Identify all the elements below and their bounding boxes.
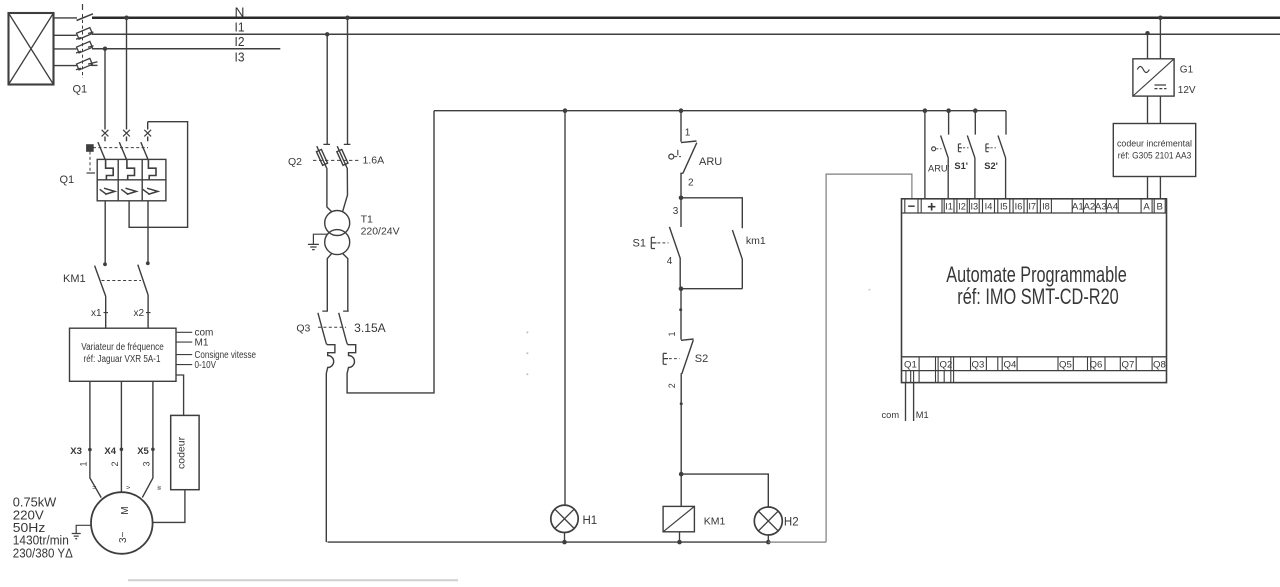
svg-text:Q2: Q2	[288, 156, 302, 168]
svg-text:I1: I1	[945, 201, 953, 211]
svg-text:H1: H1	[583, 515, 598, 527]
svg-text:I2: I2	[958, 201, 966, 211]
svg-text:Variateur de fréquence: Variateur de fréquence	[81, 342, 164, 353]
svg-text:KM1: KM1	[704, 516, 726, 528]
svg-text:1: 1	[685, 127, 691, 138]
svg-text:x1: x1	[91, 308, 102, 319]
svg-text:B: B	[1156, 202, 1162, 213]
svg-text:S2': S2'	[984, 161, 998, 171]
svg-text:I2: I2	[235, 34, 245, 49]
svg-text:KM1: KM1	[63, 273, 86, 285]
svg-text:3: 3	[142, 461, 152, 466]
svg-text:ARU': ARU'	[928, 164, 950, 174]
svg-text:M1: M1	[916, 410, 929, 420]
svg-text:Q5: Q5	[1059, 359, 1072, 370]
svg-text:H2: H2	[784, 517, 799, 529]
svg-text:2: 2	[667, 383, 677, 388]
svg-text:4: 4	[667, 256, 673, 267]
svg-text:v: v	[126, 486, 132, 489]
svg-text:A: A	[1143, 202, 1150, 213]
svg-text:1: 1	[79, 461, 89, 466]
svg-text:230/380 YΔ: 230/380 YΔ	[13, 546, 74, 560]
svg-text:X5: X5	[137, 446, 149, 457]
svg-text:com: com	[882, 410, 900, 420]
svg-text:S1: S1	[633, 237, 646, 249]
svg-text:A4: A4	[1106, 202, 1118, 213]
svg-text:x2: x2	[134, 308, 145, 319]
svg-text:X4: X4	[104, 446, 116, 457]
svg-text:1: 1	[667, 331, 677, 336]
svg-text:G1: G1	[1180, 64, 1194, 75]
svg-text:S2: S2	[695, 353, 708, 365]
svg-text:I1: I1	[235, 20, 245, 35]
svg-text:Q1: Q1	[60, 174, 75, 186]
svg-text:3.15A: 3.15A	[354, 323, 386, 335]
svg-text:ARU: ARU	[699, 156, 722, 168]
svg-text:I6: I6	[1015, 201, 1023, 211]
svg-text:12V: 12V	[1178, 85, 1196, 96]
svg-text:2: 2	[110, 461, 120, 466]
svg-text:I3: I3	[235, 50, 245, 65]
svg-text:−: −	[908, 199, 916, 214]
svg-text:I5: I5	[1000, 201, 1008, 211]
svg-text:Q4: Q4	[1004, 359, 1017, 370]
svg-text:0-10V: 0-10V	[195, 360, 217, 371]
svg-text:Q3: Q3	[296, 323, 310, 335]
svg-text:M: M	[120, 506, 131, 514]
svg-text:1.6A: 1.6A	[363, 155, 385, 167]
svg-text:A2: A2	[1084, 202, 1096, 213]
svg-text:3: 3	[673, 206, 679, 217]
svg-text:Q2: Q2	[940, 359, 953, 370]
svg-text:codeur incrémental: codeur incrémental	[1117, 139, 1192, 149]
svg-text:X3: X3	[70, 446, 82, 457]
svg-text:km1: km1	[746, 235, 766, 247]
svg-text:réf: G305 2101 AA3: réf: G305 2101 AA3	[1118, 151, 1192, 161]
svg-text:I7: I7	[1028, 201, 1036, 211]
svg-text:M1: M1	[195, 338, 209, 349]
svg-text:Q3: Q3	[972, 359, 985, 370]
svg-text:Q1: Q1	[73, 84, 88, 96]
svg-text:I3: I3	[970, 201, 978, 211]
svg-text:Q7: Q7	[1122, 359, 1135, 370]
svg-text:I8: I8	[1042, 201, 1050, 211]
svg-text:réf: IMO SMT-CD-R20: réf: IMO SMT-CD-R20	[957, 284, 1119, 309]
svg-text:A3: A3	[1095, 202, 1107, 213]
svg-text:3~: 3~	[118, 531, 129, 543]
svg-text:+: +	[927, 199, 936, 216]
svg-text:Q1: Q1	[904, 359, 917, 370]
svg-text:2: 2	[688, 178, 694, 189]
svg-text:réf: Jaguar VXR 5A-1: réf: Jaguar VXR 5A-1	[84, 354, 161, 365]
svg-text:S1': S1'	[954, 161, 968, 171]
svg-text:N: N	[235, 4, 245, 19]
svg-text:w: w	[157, 485, 163, 491]
svg-text:T1: T1	[361, 214, 373, 226]
svg-text:Q6: Q6	[1090, 359, 1103, 370]
svg-text:220/24V: 220/24V	[361, 225, 400, 237]
svg-text:I4: I4	[985, 201, 993, 211]
svg-text:Q8: Q8	[1153, 359, 1166, 370]
svg-text:A1: A1	[1072, 202, 1084, 213]
svg-text:codeur: codeur	[176, 436, 188, 469]
svg-text:u: u	[92, 486, 98, 489]
